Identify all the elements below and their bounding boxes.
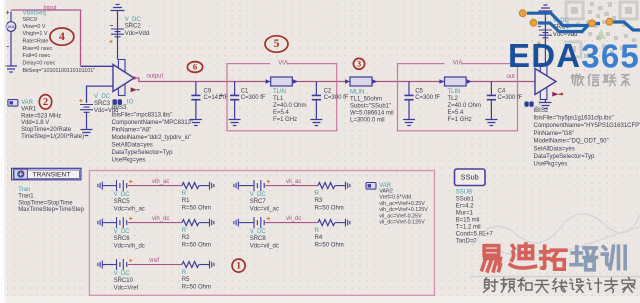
driver output pin arrow bbox=[131, 77, 140, 93]
svg-text:B=15 mil: B=15 mil bbox=[456, 217, 480, 223]
wire bbox=[238, 222, 254, 224]
svg-text:Cond=5.8E+7: Cond=5.8E+7 bbox=[456, 231, 494, 237]
svg-text:C9: C9 bbox=[204, 88, 212, 94]
junction marker bbox=[219, 94, 223, 98]
svg-text:SRC6: SRC6 bbox=[114, 236, 131, 242]
svg-text:TL2: TL2 bbox=[448, 96, 459, 102]
svg-text:DataTypeSelector=Typ: DataTypeSelector=Typ bbox=[112, 150, 174, 156]
svg-text:Mur=1: Mur=1 bbox=[456, 210, 474, 216]
svg-text:vil_dc: vil_dc bbox=[286, 216, 301, 222]
source V_DC SRC8 bbox=[254, 217, 264, 228]
node input wire bbox=[11, 10, 81, 66]
svg-text:Z=40.0 Ohm: Z=40.0 Ohm bbox=[448, 103, 482, 109]
IBIS2 component icon bbox=[525, 102, 541, 108]
op-amp U2 IBIS receiver IBIS2 bbox=[535, 64, 556, 100]
ground (SRC3) bbox=[81, 130, 93, 136]
ground (R1 right) bbox=[210, 182, 214, 190]
ground (SRC9) bbox=[5, 66, 17, 72]
callout circle 5 bbox=[265, 36, 288, 52]
svg-text:StopTime=20/Rate: StopTime=20/Rate bbox=[21, 127, 72, 133]
power rail V_DC SRC4 bbox=[537, 5, 577, 64]
svg-text:F=1 GHz: F=1 GHz bbox=[448, 117, 472, 123]
svg-text:F=1 GHz: F=1 GHz bbox=[273, 117, 297, 123]
svg-text:R2: R2 bbox=[182, 235, 190, 241]
EDA365 logo traces bbox=[527, 13, 640, 31]
wire bbox=[335, 222, 346, 224]
svg-text:Vdc=vih_dc: Vdc=vih_dc bbox=[114, 243, 145, 249]
IBIS3 component icon bbox=[113, 99, 134, 105]
svg-text:Vdc=Vref: Vdc=Vref bbox=[114, 285, 139, 291]
svg-text:SRC7: SRC7 bbox=[250, 199, 267, 205]
svg-text:TRANSIENT: TRANSIENT bbox=[33, 171, 71, 178]
svg-text:vih_ac=Vref+0.25V: vih_ac=Vref+0.25V bbox=[379, 201, 425, 207]
svg-text:R=50 Ohm: R=50 Ohm bbox=[315, 242, 344, 248]
watermark 射频和天线设计专家 bbox=[484, 278, 635, 293]
svg-text:Rise=0 nsec: Rise=0 nsec bbox=[23, 46, 53, 52]
callout circle 3 bbox=[353, 58, 364, 69]
source V_DC SRC3 bbox=[79, 94, 118, 129]
svg-text:W=5.086614 mil: W=5.086614 mil bbox=[350, 110, 394, 116]
callout circle 2 bbox=[39, 95, 51, 109]
svg-text:TLIN: TLIN bbox=[273, 89, 286, 95]
ground (R5 right) bbox=[210, 261, 214, 269]
wire bbox=[199, 185, 210, 187]
wire bbox=[102, 185, 116, 187]
row 1 left: source SRC5 + resistor R1 bbox=[98, 179, 214, 213]
wire node vih_dc bbox=[128, 222, 182, 224]
svg-text:5: 5 bbox=[274, 38, 280, 50]
svg-text:IbisFile="hy5ps1g1631cfp.ibs": IbisFile="hy5ps1g1631cfp.ibs" bbox=[534, 115, 614, 121]
svg-text:Z=40.0 Ohm: Z=40.0 Ohm bbox=[273, 103, 307, 109]
svg-text:SSub: SSub bbox=[461, 173, 479, 182]
svg-text:R=50 Ohm: R=50 Ohm bbox=[182, 205, 211, 211]
svg-text:TimeStep=1/(200*Rate): TimeStep=1/(200*Rate) bbox=[21, 134, 84, 140]
svg-text:Vdc=Vdd: Vdc=Vdd bbox=[125, 31, 150, 37]
svg-text:output: output bbox=[147, 74, 164, 80]
svg-text:R3: R3 bbox=[315, 198, 323, 204]
resistor R3 bbox=[318, 183, 335, 189]
ground (SRC8 left) bbox=[234, 219, 238, 227]
wire to driver input bbox=[81, 65, 114, 67]
svg-text:ModelName="DQ_ODT_50": ModelName="DQ_ODT_50" bbox=[534, 139, 609, 145]
svg-text:4: 4 bbox=[59, 29, 65, 43]
IBIS2 parameter text bbox=[534, 108, 640, 168]
svg-text:MLIN: MLIN bbox=[350, 90, 364, 96]
svg-text:R4: R4 bbox=[315, 235, 323, 241]
svg-text:Vref=0.5*Vdd: Vref=0.5*Vdd bbox=[379, 195, 411, 201]
ground (receiver) bbox=[539, 103, 551, 109]
svg-text:Vlow=0 V: Vlow=0 V bbox=[23, 24, 46, 30]
svg-text:C=300 fF: C=300 fF bbox=[498, 95, 523, 101]
svg-text:Vdc=vil_dc: Vdc=vil_dc bbox=[250, 243, 279, 249]
svg-text:UsePkg=yes: UsePkg=yes bbox=[534, 162, 568, 168]
svg-text:SSub1: SSub1 bbox=[456, 196, 475, 202]
ground (SRC6 left) bbox=[98, 219, 102, 227]
svg-text:Fall=0 nsec: Fall=0 nsec bbox=[23, 53, 51, 59]
svg-text:C=300 fF: C=300 fF bbox=[415, 95, 440, 101]
TL1 labels bbox=[273, 89, 307, 123]
svg-text:2: 2 bbox=[43, 97, 48, 108]
source V_DC SRC6 bbox=[117, 217, 127, 228]
svg-text:Rate=523 MHz: Rate=523 MHz bbox=[21, 113, 61, 119]
watermark 微信联系 bbox=[572, 74, 630, 86]
svg-text:C5: C5 bbox=[415, 88, 423, 94]
logo leaf bbox=[596, 29, 606, 39]
svg-text:3: 3 bbox=[357, 58, 361, 68]
svg-text:SRC3: SRC3 bbox=[94, 101, 111, 107]
reference sources box bbox=[89, 171, 434, 296]
substrate block SSub bbox=[455, 169, 494, 244]
svg-text:SRC5: SRC5 bbox=[114, 199, 131, 205]
row 1 right: source SRC7 + resistor R3 bbox=[234, 179, 350, 213]
svg-text:ModelName="ddr2_typdrv_io": ModelName="ddr2_typdrv_io" bbox=[112, 135, 192, 141]
svg-text:vil_ac: vil_ac bbox=[286, 179, 301, 185]
op-amp U1 IBIS driver IBIS3 bbox=[113, 60, 134, 96]
wire bbox=[102, 264, 116, 266]
svg-text:T=1.2 mil: T=1.2 mil bbox=[456, 224, 481, 230]
svg-text:V_DC: V_DC bbox=[250, 229, 267, 235]
svg-text:C=141 fF: C=141 fF bbox=[204, 95, 229, 101]
transmission line TL2 bbox=[439, 77, 471, 86]
logo pads (orange dots) bbox=[519, 10, 613, 27]
svg-text:SRC2: SRC2 bbox=[125, 23, 142, 29]
svg-text:Tran: Tran bbox=[18, 187, 30, 193]
ground (SRC7 left) bbox=[234, 182, 238, 190]
receiver output arrow bbox=[552, 92, 563, 97]
capacitor C2 bbox=[310, 82, 322, 126]
svg-text:R=50 Ohm: R=50 Ohm bbox=[315, 205, 344, 211]
svg-text:IbisFile="mpc8313.ibs": IbisFile="mpc8313.ibs" bbox=[112, 112, 173, 118]
svg-text:R: R bbox=[315, 191, 320, 197]
SRC9 parameter text bbox=[23, 10, 96, 74]
watermark 易迪拓培训 bbox=[482, 244, 566, 271]
wire node vil_ac bbox=[265, 185, 318, 187]
svg-text:VAR: VAR bbox=[21, 100, 34, 106]
svg-text:V_DC: V_DC bbox=[250, 192, 267, 198]
svg-text:Delay=0 nsec: Delay=0 nsec bbox=[23, 61, 56, 67]
capacitor C5 bbox=[403, 82, 415, 126]
VIA box 1 bbox=[227, 64, 337, 131]
svg-text:Subst="SSub1": Subst="SSub1" bbox=[350, 103, 391, 109]
svg-text:SRC8: SRC8 bbox=[250, 236, 267, 242]
source V_DC SRC5 bbox=[117, 180, 127, 191]
ground (R3 right) bbox=[346, 182, 350, 190]
svg-text:C4: C4 bbox=[498, 88, 506, 94]
svg-text:V_DC: V_DC bbox=[94, 94, 111, 100]
svg-text:IBIS2: IBIS2 bbox=[534, 108, 549, 114]
VAR block VAR2 bbox=[366, 183, 428, 226]
svg-text:UsePkg=yes: UsePkg=yes bbox=[112, 157, 146, 163]
IBIS3 parameter text bbox=[112, 105, 193, 164]
power rail V_DC SRC2 bbox=[109, 5, 149, 60]
svg-text:IBIS3: IBIS3 bbox=[112, 105, 127, 111]
capacitor C1 bbox=[229, 82, 241, 126]
wire bbox=[335, 185, 346, 187]
svg-text:Vhigh=1 V: Vhigh=1 V bbox=[23, 31, 48, 37]
svg-text:R: R bbox=[182, 228, 187, 234]
ground (R4 right) bbox=[346, 219, 350, 227]
VAR block VAR1 bbox=[8, 100, 84, 140]
svg-text:6: 6 bbox=[193, 62, 197, 72]
svg-text:V_DC: V_DC bbox=[114, 229, 131, 235]
svg-text:R: R bbox=[182, 191, 187, 197]
svg-text:TLIN: TLIN bbox=[448, 89, 461, 95]
row 2 right: source SRC8 + resistor R4 bbox=[234, 216, 350, 250]
svg-text:_I: _I bbox=[534, 102, 540, 108]
source V_DC SRC7 bbox=[254, 180, 264, 191]
source SRC9 VtBitSeq bbox=[6, 11, 16, 66]
svg-text:V_DC: V_DC bbox=[114, 192, 131, 198]
svg-text:out: out bbox=[507, 74, 516, 80]
svg-text:C=300 fF: C=300 fF bbox=[324, 95, 349, 101]
resistor R4 bbox=[318, 220, 335, 226]
svg-text:vref: vref bbox=[149, 258, 159, 264]
svg-text:PinName="A8": PinName="A8" bbox=[112, 127, 152, 133]
svg-text:VIA: VIA bbox=[278, 60, 288, 66]
wire bbox=[238, 185, 254, 187]
svg-text:SRC9: SRC9 bbox=[23, 17, 37, 23]
TL1_50ohm labels bbox=[350, 90, 394, 124]
svg-text:R5: R5 bbox=[182, 277, 190, 283]
resistor R1 bbox=[182, 183, 199, 189]
source V_DC SRC10 bbox=[117, 259, 127, 270]
wire node vil_dc bbox=[265, 222, 318, 224]
svg-text:1011: 1011 bbox=[7, 25, 15, 29]
watermark QR code (top right, faint) bbox=[566, 2, 638, 58]
svg-text:V_DC: V_DC bbox=[114, 271, 131, 277]
ground (SRC10 left) bbox=[98, 261, 102, 269]
svg-text:C=300 fF: C=300 fF bbox=[241, 95, 266, 101]
row 2 left: source SRC6 + resistor R2 bbox=[98, 216, 214, 250]
svg-text:Vdd=1.8 V: Vdd=1.8 V bbox=[21, 120, 49, 126]
callout circle 6 bbox=[187, 62, 202, 73]
svg-text:EDA365: EDA365 bbox=[508, 37, 640, 74]
row 3: source SRC10 + resistor R5 bbox=[98, 258, 214, 292]
svg-text:1: 1 bbox=[236, 261, 241, 271]
capacitor C4 bbox=[485, 82, 497, 126]
microstrip line TL1_50ohm bbox=[345, 77, 377, 86]
svg-text:L=3000.0 mil: L=3000.0 mil bbox=[350, 117, 385, 123]
svg-text:R=50 Ohm: R=50 Ohm bbox=[182, 284, 211, 290]
svg-text:SSUB: SSUB bbox=[456, 190, 472, 196]
callout circle 1 bbox=[232, 259, 245, 272]
svg-text:BitSeq="10101100110101101": BitSeq="10101100110101101" bbox=[23, 68, 96, 74]
svg-text:Tran1: Tran1 bbox=[18, 194, 34, 200]
transmission line TL1 bbox=[266, 77, 298, 86]
svg-text:vih_dc=Vref+0.125V: vih_dc=Vref+0.125V bbox=[379, 207, 428, 213]
resistor R5 bbox=[182, 262, 199, 268]
VIA box 2 bbox=[398, 64, 518, 131]
svg-text:V_DC: V_DC bbox=[125, 17, 142, 23]
svg-text:ComponentName="MPC8313": ComponentName="MPC8313" bbox=[112, 120, 193, 126]
capacitor C9 bbox=[190, 82, 202, 126]
svg-text:R: R bbox=[315, 228, 320, 234]
wire bbox=[199, 222, 210, 224]
svg-text:DataTypeSelector=Typ: DataTypeSelector=Typ bbox=[534, 154, 596, 160]
svg-text:C1: C1 bbox=[241, 88, 249, 94]
resistor R2 bbox=[182, 220, 199, 226]
callout circle 4 bbox=[50, 28, 74, 45]
svg-text:Rate=Rate: Rate=Rate bbox=[23, 38, 49, 44]
svg-text:VtBitSeq: VtBitSeq bbox=[23, 10, 46, 16]
faint gray script watermark bbox=[470, 214, 640, 277]
wire receiver ground pin bbox=[544, 100, 546, 103]
svg-text:SetAllData=yes: SetAllData=yes bbox=[112, 142, 153, 148]
svg-text:MaxTimeStep=TimeStep: MaxTimeStep=TimeStep bbox=[18, 207, 84, 213]
wire node vih_ac bbox=[128, 185, 182, 187]
wire driver lower pin bbox=[87, 86, 114, 103]
svg-text:R1: R1 bbox=[182, 198, 190, 204]
svg-text:SRC10: SRC10 bbox=[114, 278, 134, 284]
svg-text:vil_dc=Vref-0.125V: vil_dc=Vref-0.125V bbox=[379, 220, 425, 226]
svg-text:ComponentName="HY5PS1G1631CFP": ComponentName="HY5PS1G1631CFP" bbox=[534, 123, 640, 129]
ground (R2 right) bbox=[210, 219, 214, 227]
svg-text:TL1_50ohm: TL1_50ohm bbox=[350, 96, 382, 102]
TRANSIENT controller block bbox=[12, 168, 85, 213]
svg-text:TL1: TL1 bbox=[273, 96, 284, 102]
svg-text:E=5.4: E=5.4 bbox=[448, 110, 465, 116]
TL2 labels bbox=[448, 89, 482, 123]
svg-text:C2: C2 bbox=[324, 88, 332, 94]
wire bbox=[199, 264, 210, 266]
svg-text:Vdc=vil_ac: Vdc=vil_ac bbox=[250, 206, 279, 212]
wire bbox=[102, 222, 116, 224]
wire main signal line bbox=[134, 78, 535, 82]
svg-text:Vdc=vih_ac: Vdc=vih_ac bbox=[114, 206, 145, 212]
svg-text:vih_ac: vih_ac bbox=[152, 179, 169, 185]
svg-text:SetAllData=yes: SetAllData=yes bbox=[534, 146, 575, 152]
svg-text:VAR2: VAR2 bbox=[379, 189, 393, 195]
ground (SRC5 left) bbox=[98, 182, 102, 190]
svg-text:vih_dc: vih_dc bbox=[152, 216, 169, 222]
svg-text:VIA: VIA bbox=[453, 60, 463, 66]
svg-text:Er=4.2: Er=4.2 bbox=[456, 203, 475, 209]
svg-text:E=5.4: E=5.4 bbox=[273, 110, 290, 116]
svg-text:vil_ac=Vref-0.25V: vil_ac=Vref-0.25V bbox=[379, 213, 422, 219]
wire node vref bbox=[128, 264, 182, 266]
svg-text:StopTime=StopTime: StopTime=StopTime bbox=[18, 200, 73, 206]
svg-text:PinName="G8": PinName="G8" bbox=[534, 131, 574, 137]
svg-text:VAR1: VAR1 bbox=[21, 106, 37, 112]
svg-text:R: R bbox=[182, 270, 187, 276]
svg-text:R=50 Ohm: R=50 Ohm bbox=[182, 242, 211, 248]
